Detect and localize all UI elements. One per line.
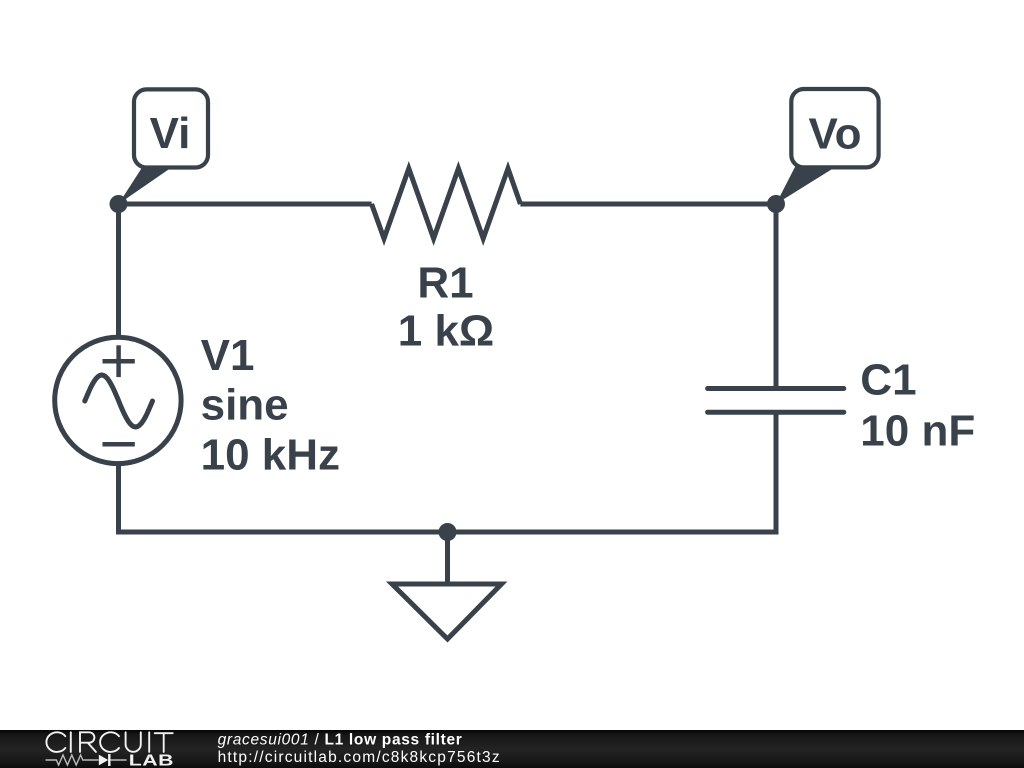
svg-text:1 kΩ: 1 kΩ	[398, 306, 494, 355]
ground triangle	[392, 584, 502, 639]
wire left upper (Vi node to V1 top)	[116, 204, 121, 337]
wire left lower (V1 bottom to bottom rail)	[116, 464, 121, 532]
V1 sine waveform	[85, 375, 153, 427]
V1 plus sign	[103, 345, 135, 377]
V1 minus sign	[103, 442, 135, 447]
logo letter I	[70, 732, 72, 752]
svg-text:C1: C1	[860, 356, 916, 405]
svg-text:10 kHz: 10 kHz	[201, 430, 340, 479]
logo letter C	[100, 732, 119, 752]
logo diode triangle	[99, 755, 108, 766]
ground junction dot	[439, 523, 457, 541]
logo letter R	[80, 732, 96, 752]
node Vo callout wedge	[776, 167, 836, 205]
node Vo label box	[791, 89, 878, 167]
svg-text:LAB: LAB	[129, 751, 174, 768]
svg-text:V1: V1	[201, 331, 255, 380]
ground stub wire	[445, 532, 450, 584]
logo resistor squiggle	[46, 755, 99, 765]
svg-text:10 nF: 10 nF	[860, 406, 975, 455]
logo diode wire out	[111, 759, 127, 761]
svg-text:Vi: Vi	[150, 109, 191, 158]
node Vo junction dot	[767, 195, 785, 213]
wire top right (R1 to Vo node)	[520, 202, 776, 207]
capacitor C1 bottom plate	[708, 410, 844, 415]
voltage source V1 circle	[55, 337, 181, 463]
CircuitLab logo CIRCUIT letters	[46, 732, 172, 752]
svg-text:Vo: Vo	[809, 109, 862, 158]
capacitor C1 top plate	[708, 386, 844, 391]
logo letter U	[126, 732, 141, 752]
svg-text:gracesui001 / L1 low pass filt: gracesui001 / L1 low pass filter	[218, 732, 463, 749]
svg-text:R1: R1	[417, 258, 473, 307]
logo letter C	[46, 732, 65, 752]
node Vi label box	[134, 89, 208, 167]
wire right upper (Vo node to C1)	[774, 204, 779, 389]
svg-text:http://circuitlab.com/c8k8kcp7: http://circuitlab.com/c8k8kcp756t3z	[218, 749, 501, 766]
logo diode bar	[108, 754, 110, 766]
resistor R1	[372, 169, 521, 239]
node Vi callout wedge	[119, 167, 173, 205]
bottom wire rail	[116, 530, 776, 535]
wire top left (Vi node to R1)	[119, 202, 372, 207]
node Vi junction dot	[110, 195, 128, 213]
logo letter T	[155, 733, 173, 752]
wire right lower (C1 to bottom rail)	[774, 412, 779, 534]
logo letter I	[148, 732, 150, 752]
footer bar	[0, 730, 1024, 768]
svg-text:sine: sine	[201, 381, 289, 430]
